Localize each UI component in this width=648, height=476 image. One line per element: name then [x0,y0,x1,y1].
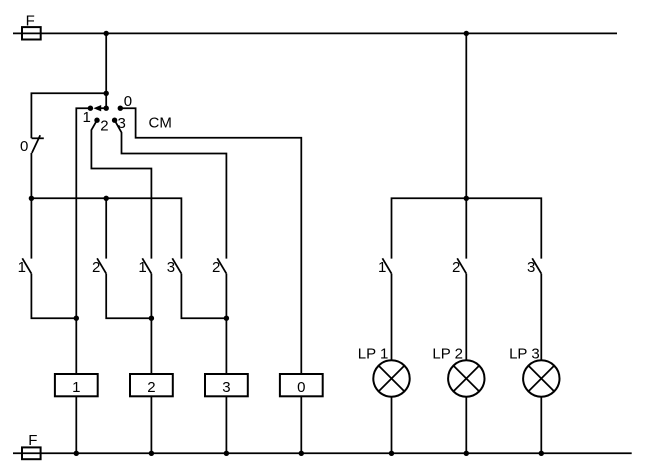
node bottom rail coil 0 [299,451,304,456]
switch lamp contact 3 [532,258,541,360]
svg-text:CM: CM [149,115,172,132]
svg-text:3: 3 [118,115,126,132]
svg-text:1: 1 [72,379,80,396]
wire coil 0 to bottom rail [300,396,302,453]
fuse F bottom [22,432,41,459]
svg-text:1: 1 [378,259,386,276]
node coil 1 branch junction [74,316,79,321]
wire feed to NC contact 0 [31,93,106,138]
wire bottom neutral rail [13,452,632,454]
node control rail at switch 2 [104,196,109,201]
coil 0 [280,374,323,396]
svg-text:F: F [26,12,35,29]
switch 0 NC contact [32,135,44,153]
wire coil 1 to bottom rail [75,396,77,453]
coil 1 [55,374,98,396]
node bottom rail coil 3 [224,451,229,456]
lamp LP 2 [448,360,484,396]
wire coil 2 to bottom rail [150,396,152,453]
node CM feed junction [104,91,109,96]
svg-text:LP 1: LP 1 [358,346,389,363]
node bottom rail lamp 3 [539,451,544,456]
wire lamp rail [392,198,542,258]
svg-text:1: 1 [18,259,26,276]
wire CM contact 3 to switch 2b [115,120,227,258]
wire CM contact 0 to coil 0 [120,108,301,374]
svg-text:2: 2 [147,379,155,396]
node bottom rail lamp 2 [464,451,469,456]
wire lamp feed [465,33,467,258]
node CM contact 1 [88,106,93,111]
coil 3 [205,374,248,396]
wire CM contact 2 to switch 1b [91,120,151,258]
cam switch CM selector arm [93,105,106,111]
svg-text:0: 0 [20,138,28,155]
lamp LP 3 [523,360,559,396]
node coil 2 branch junction [149,316,154,321]
wire top supply rail [13,32,617,34]
node CM contact 3 [112,118,117,123]
node CM contact 0 [118,106,123,111]
svg-text:1: 1 [138,259,146,276]
svg-text:0: 0 [297,379,305,396]
lamp LP 1 [373,360,409,396]
switch contact 1b (interlock) [142,258,151,374]
node bottom rail coil 1 [74,451,79,456]
wire CM contact 1 to coil 1 [76,108,90,374]
wire control rail [31,198,181,258]
svg-text:3: 3 [222,379,230,396]
svg-text:F: F [28,432,37,449]
svg-text:LP 3: LP 3 [509,346,540,363]
svg-text:1: 1 [83,109,91,126]
switch contact 2 (step) [97,198,151,318]
node control rail at switch 1 [29,196,34,201]
switch lamp contact 1 [382,258,391,360]
wire NC contact to control rail [30,153,32,198]
wire lamp 1 to bottom rail [391,397,393,454]
node top rail / CM feed [104,31,109,36]
svg-text:2: 2 [92,259,100,276]
svg-text:2: 2 [212,259,220,276]
node bottom rail coil 2 [149,451,154,456]
wire CM common feed [105,33,107,108]
svg-text:2: 2 [452,259,460,276]
node bottom rail lamp 1 [389,451,394,456]
coil 2 [130,374,173,396]
switch contact 3 (step) [172,258,226,318]
svg-text:LP 2: LP 2 [432,346,463,363]
wire coil 3 to bottom rail [225,396,227,453]
svg-text:3: 3 [527,259,535,276]
fuse F top [22,12,41,39]
switch contact 1 (self hold) [22,198,76,318]
node CM contact 2 [94,118,99,123]
wire lamp 3 to bottom rail [540,397,542,454]
wire lamp 2 to bottom rail [465,397,467,454]
svg-text:3: 3 [167,259,175,276]
node top rail / lamp branch [464,31,469,36]
node CM common pivot [104,106,109,111]
node coil 3 branch junction [224,316,229,321]
switch lamp contact 2 [457,258,466,360]
switch contact 2b (interlock) [217,258,226,374]
svg-text:2: 2 [100,117,108,134]
node lamp rail junction [464,196,469,201]
